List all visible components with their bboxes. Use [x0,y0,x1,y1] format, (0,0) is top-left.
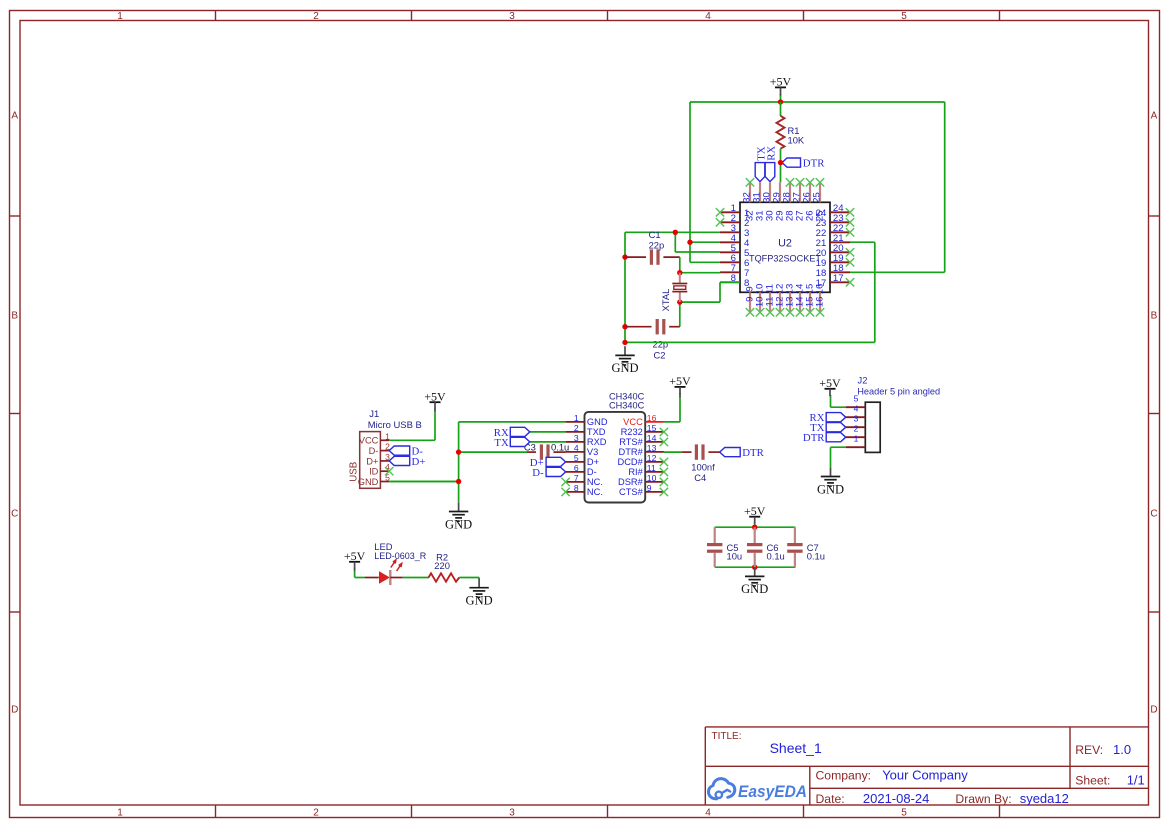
pin 5 stub U2 [720,251,740,253]
junction +5V rail [778,99,783,104]
svg-text:DTR: DTR [803,158,825,170]
power +5V (J2) [819,376,841,396]
pin 29 stub U2 [779,182,781,202]
svg-text:GND: GND [741,582,768,596]
capacitor C3 leads [527,451,536,453]
pin 14 stub CH340 [645,441,664,443]
pin 10 stub U2 [759,292,761,312]
svg-text:25: 25 [815,210,826,221]
connector J1 Micro USB B body [360,432,381,489]
no-connect X CH340 pin 14 [660,438,668,446]
junction top rail [752,525,757,530]
capacitor C1 [650,249,660,264]
capacitor C6 [747,543,762,553]
no-connect X pin 32 [746,178,754,186]
svg-text:0.1u: 0.1u [807,551,825,562]
power +5V (C5 cluster) [744,504,766,524]
capacitor C6 leads [754,527,756,543]
svg-text:16: 16 [815,297,826,308]
svg-text:1: 1 [385,431,390,441]
svg-text:2: 2 [574,423,579,433]
svg-text:B: B [11,311,18,322]
svg-text:GND: GND [466,594,493,608]
net flag D- (CH340) [532,467,565,479]
svg-text:TXD: TXD [587,427,606,437]
capacitor C2 [656,319,666,334]
no-connect X pin 14 [796,308,804,316]
power +5V (J1) [424,390,446,410]
no-connect X CH340 pin 8 [561,488,569,496]
svg-text:RTS#: RTS# [619,437,643,447]
wire +5V top rail [690,102,945,272]
svg-text:REV:: REV: [1075,743,1103,757]
svg-text:1: 1 [117,808,123,819]
svg-text:7: 7 [574,473,579,483]
pin 31 stub U2 [759,182,761,202]
svg-text:A: A [1151,111,1158,122]
wire LED anode lead [365,577,379,579]
svg-text:DSR#: DSR# [618,477,644,487]
junction DTR node [778,160,783,165]
wire TX to RXD [530,441,566,443]
net flag D+ (CH340) [530,457,566,469]
svg-text:3: 3 [509,808,515,819]
svg-text:4: 4 [854,404,859,414]
svg-text:J1: J1 [369,408,379,419]
crystal XTAL [672,273,687,302]
svg-text:TX: TX [494,437,509,449]
connector J2 body [865,402,880,452]
junction GND rail [622,340,627,345]
svg-text:25: 25 [811,192,822,203]
wire GND rail bottom [625,341,875,343]
no-connect X pin 12 [776,308,784,316]
pin 3 stub J1 [380,460,389,462]
no-connect X pin 17 [846,278,854,286]
no-connect X CH340 pin 7 [561,478,569,486]
pin 13 stub U2 [789,292,791,312]
svg-text:GND: GND [611,361,638,375]
net flag RX (J2) [810,412,846,424]
wire C2 left lead [625,326,652,328]
pin 6 stub U2 [720,261,740,263]
svg-text:100nf: 100nf [691,461,715,472]
svg-text:15: 15 [647,423,657,433]
pin 18 stub U2 [830,271,850,273]
net flag RX (CH340) [494,427,530,439]
svg-text:TITLE:: TITLE: [712,731,742,742]
net flag TX (CH340) [494,437,529,449]
no-connect X CH340 pin 15 [660,428,668,436]
svg-text:2021-08-24: 2021-08-24 [863,791,930,806]
wire DTR node to pin 29 [780,163,782,183]
svg-text:NC.: NC. [587,477,603,487]
svg-text:EasyEDA: EasyEDA [738,782,807,801]
svg-text:C4: C4 [694,472,706,483]
svg-text:9: 9 [647,483,652,493]
pin 14 stub U2 [799,292,801,312]
svg-text:GND: GND [817,482,844,496]
wire XTAL column [680,257,740,327]
svg-text:ID: ID [369,467,379,477]
wire C4 left lead [682,451,692,453]
svg-text:LED-0603_R: LED-0603_R [374,550,426,561]
pin 7 stub U2 [720,271,740,273]
no-connect X CH340 pin 10 [660,478,668,486]
svg-text:5: 5 [854,394,859,404]
junction XTAL top [677,270,682,275]
pin 4 stub U2 [720,241,740,243]
no-connect X pin 27 [796,178,804,186]
pin 15 stub CH340 [645,431,664,433]
svg-text:TQFP32SOCKET: TQFP32SOCKET [749,252,821,263]
pin 3 stub J2 [846,426,866,428]
svg-text:1/1: 1/1 [1127,772,1145,787]
svg-text:22p: 22p [649,239,665,250]
pin 1 stub CH340 [566,421,585,423]
pin 21 stub U2 [830,241,850,243]
svg-text:17: 17 [833,273,844,284]
pin 4 stub J2 [846,416,866,418]
svg-text:V3: V3 [587,447,598,457]
no-connect X CH340 pin 9 [660,488,668,496]
no-connect X pin 26 [806,178,814,186]
capacitor C5 [707,543,722,553]
svg-text:10K: 10K [788,134,805,145]
svg-text:10u: 10u [727,551,743,562]
power +5V (top rail) [770,75,792,95]
no-connect X pin 2 [716,218,724,226]
junction pin3/pin5 branch [673,230,678,235]
svg-text:1: 1 [854,434,859,444]
svg-text:D+: D+ [412,456,426,468]
no-connect X pin 11 [766,308,774,316]
wire RX to TXD [530,431,566,433]
net flag D- (J1) [389,446,423,458]
svg-text:DTR: DTR [742,447,764,459]
svg-text:2: 2 [313,11,319,22]
IC U? CH340C body [585,412,646,503]
svg-text:Sheet:: Sheet: [1075,773,1110,787]
svg-text:Drawn By:: Drawn By: [955,792,1011,806]
junction V3 branch [456,449,461,454]
pin 19 stub U2 [830,261,850,263]
svg-text:RXD: RXD [587,437,607,447]
wire CH340 GND net vertical [389,422,565,502]
svg-text:C1: C1 [649,229,661,240]
svg-text:D+: D+ [587,457,599,467]
svg-text:0.1u: 0.1u [767,551,785,562]
pin 32 stub U2 [749,182,751,202]
no-connect X pin 9 [746,308,754,316]
svg-text:Company:: Company: [816,769,872,783]
wire C4 right lead [708,451,719,453]
svg-text:RI#: RI# [628,467,643,477]
no-connect X pin 15 [806,308,814,316]
wire LED cathode lead [390,577,403,579]
svg-text:A: A [11,111,18,122]
svg-text:Date:: Date: [816,792,845,806]
no-connect X CH340 pin 12 [660,458,668,466]
power +5V (CH340) [669,374,691,394]
pin 2 stub J2 [846,436,866,438]
pin 28 stub U2 [789,182,791,202]
svg-text:DCD#: DCD# [617,457,643,467]
no-connect X CH340 pin 11 [660,468,668,476]
capacitor C3 [540,444,550,459]
wire decoupling top rail [715,526,796,528]
net flag D+ (J1) [389,456,425,468]
svg-text:R232: R232 [621,427,643,437]
pin 10 stub CH340 [645,481,664,483]
pin 1 stub U2 [720,211,740,213]
capacitor C7 leads [794,527,796,543]
ground (decoupling) [741,567,768,596]
ground (crystal) [611,346,638,375]
pin 15 stub U2 [809,292,811,312]
pin 4 stub CH340 [566,451,585,453]
junction bottom rail [752,565,757,570]
no-connect X pin 16 [816,308,824,316]
title block [705,727,1148,805]
svg-text:1: 1 [117,11,123,22]
svg-text:3: 3 [574,433,579,443]
pin 5 stub J1 [380,481,389,483]
svg-text:13: 13 [647,443,657,453]
pin 9 stub CH340 [645,491,664,493]
svg-text:DTR: DTR [803,432,825,444]
svg-text:2: 2 [313,808,319,819]
pin 17 stub U2 [830,281,850,283]
junction XTAL bottom [677,299,682,304]
svg-text:D: D [1150,705,1157,716]
pin 5 stub J2 [846,406,866,408]
wire LED to R2 [403,577,429,579]
svg-text:GND: GND [358,477,379,487]
svg-text:D-: D- [587,467,597,477]
wire +5V stem (C5) [754,524,756,528]
wire pin21 to GND rail [850,242,875,342]
svg-text:Header 5 pin angled: Header 5 pin angled [857,385,940,396]
wire R1 bottom lead [780,149,782,163]
pin 16 stub CH340 [645,421,664,423]
no-connect X pin 23 [846,218,854,226]
svg-text:220: 220 [434,560,450,571]
svg-text:1: 1 [574,413,579,423]
pin 2 stub CH340 [566,431,585,433]
wire J1 VCC [389,412,435,440]
svg-text:B: B [1151,311,1158,322]
pin 12 stub U2 [779,292,781,312]
svg-text:NC.: NC. [587,487,603,497]
pin 13 stub CH340 [645,451,664,453]
no-connect X pin 19 [846,258,854,266]
pin 8 stub CH340 [566,491,585,493]
no-connect X pin 28 [786,178,794,186]
title block text [712,731,742,742]
capacitor C4 [695,444,705,459]
svg-text:10: 10 [647,473,657,483]
svg-text:syeda12: syeda12 [1020,791,1069,806]
svg-text:C: C [1150,509,1157,520]
pin 2 stub U2 [720,221,740,223]
pin 11 stub U2 [769,292,771,312]
pin 12 stub CH340 [645,461,664,463]
svg-text:C2: C2 [654,349,666,360]
EasyEDA logo [709,779,735,799]
svg-text:Your Company: Your Company [882,768,968,783]
ground (J2) [817,467,844,496]
svg-text:4: 4 [574,443,579,453]
junction C1 left [622,254,627,259]
svg-text:16: 16 [647,413,657,423]
svg-text:5: 5 [901,808,907,819]
svg-text:GND: GND [587,417,608,427]
svg-text:2: 2 [854,424,859,434]
svg-text:D-: D- [369,446,379,456]
no-connect X pin 25 [816,178,824,186]
net flag DTR (to U2) [782,158,825,170]
svg-text:DTR#: DTR# [619,447,644,457]
wire +5V stem (LED) [354,571,356,578]
pin 23 stub U2 [830,221,850,223]
net flag TX (J2) [810,422,846,434]
svg-text:D: D [11,705,18,716]
svg-text:D-: D- [532,467,544,479]
svg-text:1.0: 1.0 [1113,742,1131,757]
wire +5V to LED [355,577,365,579]
pin 26 stub U2 [809,182,811,202]
wire J2 pin5 to +5V [831,397,846,408]
net flag DTR (C4) [720,447,765,459]
svg-text:16: 16 [815,284,826,295]
wire J2 pin1 to GND [831,447,846,467]
junction GND branch [456,479,461,484]
pin 11 stub CH340 [645,471,664,473]
pin 22 stub U2 [830,231,850,233]
svg-text:RX: RX [765,146,777,161]
capacitor C7 [787,543,802,553]
pin 27 stub U2 [799,182,801,202]
no-connect X pin 1 [716,208,724,216]
pin 24 stub U2 [830,211,850,213]
pin 5 stub CH340 [566,461,585,463]
no-connect X pin 22 [846,228,854,236]
svg-text:5: 5 [901,11,907,22]
wire C3 right lead [553,451,565,453]
power +5V (LED) [344,549,366,569]
wire decoupling bottom rail [715,566,796,568]
junction pin4 branch [687,240,692,245]
wire C2 right lead [669,326,680,328]
svg-text:VCC: VCC [623,417,643,427]
wire +5V stem [780,96,782,102]
wire DTR# to C4 [664,451,682,453]
svg-text:CTS#: CTS# [619,487,644,497]
no-connect X J1 ID [385,467,393,475]
pin 8 stub U2 [720,281,740,283]
svg-text:22p: 22p [653,338,669,349]
pin 3 stub U2 [720,231,740,233]
net flag TX (pin 31) [755,146,767,181]
resistor R2 [429,573,460,581]
svg-text:GND: GND [445,517,472,531]
svg-text:5: 5 [574,453,579,463]
svg-text:12: 12 [647,453,657,463]
junction C2 left [622,324,627,329]
pin 16 stub U2 [819,292,821,312]
pin 2 stub J1 [380,450,389,452]
svg-text:CH340C: CH340C [609,401,645,411]
wire left net vertical (pin3 rail) [625,232,720,342]
svg-text:C: C [11,509,18,520]
pin 7 stub CH340 [566,481,585,483]
no-connect X pin 20 [846,248,854,256]
wire J1 GND to junction [389,481,458,483]
no-connect X pin 10 [756,308,764,316]
pin 20 stub U2 [830,251,850,253]
wire C1 left lead [625,256,646,258]
svg-text:3: 3 [854,414,859,424]
no-connect X pin 13 [786,308,794,316]
pin 4 stub J1 [380,470,389,472]
net flag RX (pin 30) [765,146,777,182]
no-connect X pin 24 [846,208,854,216]
ground (J1) [445,502,472,531]
wire R1 top lead [780,102,782,116]
svg-text:Sheet_1: Sheet_1 [770,740,822,756]
pin 3 stub CH340 [566,441,585,443]
ground (LED) [466,579,493,608]
pin 30 stub U2 [769,182,771,202]
svg-text:J2: J2 [858,374,868,385]
wire C1 right lead [663,256,679,258]
wire R2 to GND [459,578,479,580]
net flag DTR (J2) [803,432,846,444]
svg-text:4: 4 [705,808,711,819]
pin 25 stub U2 [819,182,821,202]
svg-text:14: 14 [647,433,657,443]
capacitor C5 leads [714,527,716,543]
pin 1 stub J1 [380,439,389,441]
pin 1 stub J2 [846,446,866,448]
svg-text:11: 11 [647,463,656,473]
resistor R1 [777,116,785,149]
pin 9 stub U2 [749,292,751,312]
svg-text:Micro USB B: Micro USB B [368,419,422,430]
svg-text:0.1u: 0.1u [551,441,569,452]
pin 6 stub CH340 [566,471,585,473]
svg-text:VCC: VCC [359,436,379,446]
svg-text:U2: U2 [778,237,792,249]
op-amp U2 body TQFP32SOCKET [740,202,830,292]
svg-text:6: 6 [574,463,579,473]
wire VCC to +5V [664,398,680,422]
svg-text:3: 3 [509,11,515,22]
svg-text:D+: D+ [366,456,378,466]
svg-text:4: 4 [705,11,711,22]
LED diode symbol [379,560,402,585]
svg-text:8: 8 [574,483,579,493]
svg-text:XTAL: XTAL [660,289,671,312]
